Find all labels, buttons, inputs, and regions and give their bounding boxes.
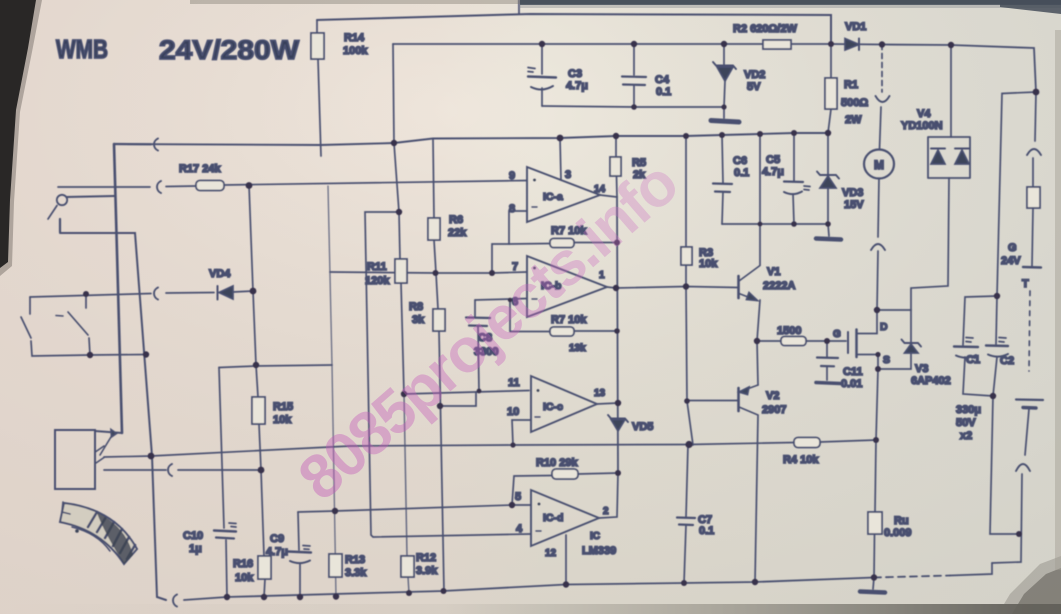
op-amp U1c (IC-c) [507, 376, 606, 432]
connector plug pot line [168, 464, 172, 476]
wire IC-d output [599, 473, 618, 518]
wire bridge bottom to drain node [911, 178, 949, 310]
wire left loop below VD4 [30, 297, 146, 356]
capacitor C7 [677, 445, 714, 584]
resistor R7a 10k [509, 225, 617, 248]
svg-text:C1: C1 [966, 354, 980, 366]
wire right feeder jog [997, 92, 1036, 296]
junctions feedback column x617 [613, 240, 621, 477]
svg-text:R16: R16 [233, 558, 253, 570]
wire bottom rail dashed right part [874, 576, 950, 578]
resistor R11 120k [365, 212, 407, 394]
svg-text:R6: R6 [449, 214, 463, 226]
switch S1 [48, 195, 114, 232]
zener VD5 [608, 415, 653, 433]
svg-text:500Ω: 500Ω [841, 97, 868, 109]
svg-text:YD100N: YD100N [901, 120, 943, 132]
wire right column with connector [1033, 92, 1036, 187]
wire cap bottom bus [542, 106, 724, 107]
svg-text:6AP402: 6AP402 [911, 375, 951, 387]
wire bottom rail [184, 578, 874, 601]
dial arc indicator [60, 502, 137, 564]
connector plug motor top [876, 96, 890, 102]
mosfet V3 6AP402 [833, 310, 890, 369]
zener V3 protection diode [878, 310, 951, 387]
svg-text:0.01: 0.01 [841, 378, 862, 390]
wire VB faint riser [328, 186, 336, 597]
junctions on H2 rail [391, 130, 831, 146]
wire top rail A [317, 14, 831, 44]
svg-text:R15: R15 [273, 401, 293, 413]
svg-text:R1: R1 [844, 79, 858, 91]
svg-text:R12: R12 [416, 552, 436, 564]
svg-text:10: 10 [507, 406, 519, 418]
wire VS to bottom rail corner [152, 456, 166, 600]
svg-text:x2: x2 [960, 430, 972, 442]
svg-text:3.9k: 3.9k [416, 565, 438, 577]
diode VD1 [845, 21, 866, 50]
svg-text:S: S [883, 354, 890, 366]
junctions left input network [83, 182, 264, 473]
resistor R1500 [757, 325, 846, 346]
junctions pin5 and R4 bus [332, 437, 879, 514]
svg-text:R10 29k: R10 29k [536, 457, 578, 469]
wire thick vertical VL [114, 144, 122, 433]
resistor R4 10k [783, 438, 820, 467]
transistor V2 2907 [687, 341, 786, 582]
capacitor C11 [816, 341, 863, 390]
svg-text:5: 5 [515, 491, 521, 503]
resistor R17 24k [58, 163, 527, 191]
svg-text:24V/280W: 24V/280W [159, 35, 300, 65]
wire motor feed (dashed drop from rail B) [881, 45, 883, 93]
junctions mid bus y224 [631, 104, 831, 227]
wire H2 main horizontal rail [114, 133, 828, 145]
potentiometer RP box [55, 430, 122, 490]
resistor R16 10k [233, 470, 271, 597]
wire IC-d pin12 ground stub [565, 535, 567, 584]
wire motor to drain [877, 251, 878, 310]
resistor R3 [681, 136, 718, 287]
svg-text:24V: 24V [1001, 255, 1021, 267]
connector plug VD4 line [154, 288, 158, 300]
capacitor C9 [266, 512, 311, 597]
svg-text:G: G [1008, 242, 1017, 254]
op-amp U1d (IC-d) [512, 490, 616, 559]
wire pot wiper to R4 bus [104, 440, 876, 457]
wire IC-c pin11 bus [404, 391, 529, 395]
svg-text:12: 12 [545, 548, 557, 559]
junctions on rail B [539, 41, 1040, 96]
junctions bottom rail [224, 574, 877, 600]
svg-text:10k: 10k [273, 414, 292, 426]
op-amp U1b (IC-b) [512, 256, 607, 317]
fuse FU [1027, 187, 1040, 266]
svg-text:V4: V4 [917, 108, 931, 120]
wire bottom rail right end jog [950, 563, 992, 576]
wire IC-c output [597, 403, 618, 404]
svg-text:D: D [880, 321, 888, 333]
svg-text:C4: C4 [655, 74, 670, 86]
svg-text:2907: 2907 [762, 404, 786, 416]
svg-text:0.1: 0.1 [734, 167, 749, 179]
capacitor C6 [713, 135, 749, 224]
connector plug pin9 line [157, 181, 161, 193]
wire stub to frame top [518, 0, 520, 14]
svg-text:VD5: VD5 [632, 421, 653, 433]
svg-text:C2: C2 [1000, 355, 1014, 367]
bridge rectifier V4 YD100N [901, 45, 970, 178]
svg-text:V3: V3 [915, 363, 928, 375]
svg-text:R17 24k: R17 24k [179, 163, 221, 175]
transistor V1 2222A [739, 266, 796, 342]
svg-text:13k: 13k [569, 343, 586, 354]
svg-text:VD1: VD1 [845, 21, 866, 33]
wire V1 collector riser x760 [759, 134, 761, 265]
svg-text:4.7μ: 4.7μ [762, 166, 784, 178]
wire IC-b output to V1 base [607, 287, 738, 289]
svg-text:3.3k: 3.3k [345, 567, 367, 579]
svg-text:V1: V1 [767, 266, 780, 278]
wire IC-a pin3 output riser [560, 138, 561, 180]
svg-text:1μ: 1μ [189, 543, 202, 555]
svg-text:VD2: VD2 [744, 69, 765, 81]
junctions right column [990, 293, 1022, 537]
svg-text:100k: 100k [343, 45, 368, 57]
svg-text:R8: R8 [409, 301, 423, 313]
svg-text:2: 2 [603, 506, 609, 517]
svg-text:IC-d: IC-d [543, 512, 563, 524]
resistor R2 620/2W [733, 23, 797, 49]
photo frame darks [0, 0, 36, 268]
resistor R14 [311, 20, 368, 156]
svg-text:10k: 10k [235, 572, 254, 584]
svg-text:IC: IC [590, 531, 600, 542]
wire source riser [876, 369, 878, 440]
resistor R6 22k (on VA riser) [428, 139, 467, 274]
wire y365 bus [219, 365, 332, 368]
capacitor C2 [986, 296, 1014, 396]
resistor R15 10k [252, 291, 293, 470]
battery G 24V [1001, 242, 1043, 455]
svg-text:2222A: 2222A [763, 280, 795, 292]
resistor R8 3k (VA riser lower) [409, 273, 445, 591]
svg-text:22k: 22k [448, 227, 467, 239]
connector plug H2 left [154, 139, 158, 151]
svg-text:R4 10k: R4 10k [783, 454, 819, 466]
svg-text:WMB: WMB [56, 34, 108, 64]
svg-text:0.1: 0.1 [699, 525, 714, 537]
connector plug battery bottom [1016, 464, 1030, 471]
svg-text:T: T [1022, 278, 1029, 290]
svg-text:120k: 120k [365, 275, 390, 287]
svg-text:50V: 50V [956, 417, 976, 429]
svg-text:3k: 3k [412, 314, 425, 326]
wire bases riser [686, 287, 693, 446]
svg-text:V2: V2 [766, 390, 779, 402]
svg-text:G: G [833, 329, 841, 340]
svg-text:2W: 2W [845, 114, 862, 126]
capacitor C4 [622, 44, 671, 107]
svg-text:8: 8 [509, 203, 515, 215]
wire VD4 riser [249, 185, 253, 291]
resistor R12 3.9k [401, 394, 438, 593]
svg-text:R2 620Ω/2W: R2 620Ω/2W [733, 23, 797, 35]
svg-text:VD4: VD4 [209, 268, 231, 280]
svg-text:VD3: VD3 [842, 187, 863, 199]
svg-text:IC-a: IC-a [543, 191, 563, 203]
connector plug right column [1027, 149, 1041, 155]
wire C2 chain down and jog to battery line [990, 396, 1019, 534]
svg-text:C11: C11 [843, 366, 863, 378]
resistor R1 [825, 44, 868, 133]
svg-text:3: 3 [565, 169, 571, 181]
switch S3 (on VD4 wire) [56, 294, 90, 355]
wire pin4 bus Y2 with L-jog [365, 212, 530, 537]
svg-text:10k: 10k [699, 258, 718, 270]
wire IC-c pin10 jog [512, 420, 531, 445]
svg-text:C10: C10 [183, 530, 203, 542]
svg-text:4: 4 [516, 523, 523, 535]
op-amp U1a (IC-a) [509, 167, 606, 222]
wire IC-a pin8 jog [492, 211, 527, 273]
wire IC-b pin7 bus [330, 272, 527, 273]
label 330u 50V x2 [956, 404, 981, 442]
svg-text:4.7μ: 4.7μ [566, 80, 588, 92]
switch S2 lever [21, 317, 31, 338]
wire H2 left gap fix [114, 143, 151, 146]
wire IC-b pin6 [475, 299, 527, 301]
svg-text:15V: 15V [844, 199, 864, 211]
resistor R7b 10k [510, 300, 617, 354]
svg-text:0.009: 0.009 [884, 527, 912, 539]
svg-text:R14: R14 [344, 32, 365, 44]
resistor R5 [610, 136, 646, 197]
ground below VD3 bus [816, 224, 841, 240]
wire switch contact to VS riser [60, 233, 152, 456]
connector plug motor bottom [871, 244, 885, 250]
wire drain node [877, 309, 911, 311]
zener VD2 [711, 44, 765, 122]
capacitor C3 [528, 44, 588, 106]
junctions comparator inputs [396, 209, 512, 409]
svg-text:330μ: 330μ [956, 404, 981, 416]
svg-text:IC-c: IC-c [543, 401, 563, 413]
wire battery negative down [992, 474, 1022, 563]
capacitor C1 [954, 296, 997, 396]
motor M1 [864, 107, 894, 237]
wire VA jog to pin11 bus [440, 392, 476, 406]
svg-text:LM339: LM339 [582, 545, 616, 557]
resistor R13 3.3k [329, 554, 367, 579]
svg-text:C3: C3 [568, 68, 582, 80]
svg-text:R11: R11 [367, 261, 387, 273]
svg-text:0.1: 0.1 [656, 86, 671, 98]
connector plug bottom rail [173, 595, 177, 607]
junctions driver and mosfet [683, 283, 881, 404]
svg-text:C9: C9 [270, 533, 284, 545]
svg-text:R13: R13 [345, 554, 365, 566]
svg-text:11: 11 [508, 377, 520, 389]
svg-text:C6: C6 [733, 155, 747, 167]
svg-text:13: 13 [594, 388, 606, 399]
wire riser x394 from rail B [393, 44, 399, 212]
svg-text:1500: 1500 [777, 325, 801, 337]
svg-text:C5: C5 [766, 154, 780, 166]
svg-text:5V: 5V [747, 81, 761, 93]
wire rail B (R1/VD1 supply rail) [393, 44, 1036, 92]
resistor Ru 0.009 shunt [868, 440, 912, 578]
capacitor C10 [183, 368, 236, 598]
wire IC-a output to feedback column x617 [600, 195, 618, 473]
capacitor C5 [762, 133, 810, 224]
capacitor C8 3300 [466, 300, 498, 391]
svg-text:Ru: Ru [894, 515, 909, 527]
wire mid bus y224 [722, 223, 828, 225]
diode VD4 [30, 268, 253, 300]
wire pot lower terminal [104, 469, 261, 471]
zener VD3 [817, 133, 864, 224]
wire pin5 bus Y1 [298, 505, 512, 512]
resistor R10 29k [512, 457, 618, 505]
svg-text:M: M [874, 158, 884, 172]
ground main [860, 578, 885, 593]
